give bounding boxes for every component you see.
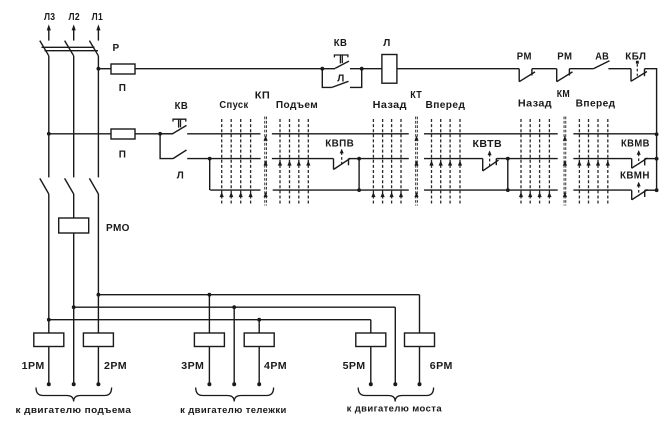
svg-text:Назад: Назад [518, 99, 552, 110]
svg-text:КВ: КВ [175, 101, 189, 112]
svg-text:к двигателю подъема: к двигателю подъема [16, 405, 132, 416]
svg-text:Вперед: Вперед [576, 99, 616, 110]
svg-text:КТ: КТ [410, 90, 422, 101]
svg-text:к двигателю тележки: к двигателю тележки [180, 405, 287, 416]
svg-text:Л3: Л3 [44, 12, 56, 23]
svg-text:КМ: КМ [557, 89, 570, 100]
svg-text:КВМВ: КВМВ [621, 139, 650, 150]
svg-text:КБЛ: КБЛ [625, 52, 646, 63]
svg-text:6РМ: 6РМ [430, 361, 453, 372]
svg-text:П: П [119, 83, 127, 94]
svg-text:КВТВ: КВТВ [473, 139, 503, 150]
svg-text:2РМ: 2РМ [104, 361, 127, 372]
svg-text:1РМ: 1РМ [22, 361, 45, 372]
svg-text:КВ: КВ [334, 38, 348, 49]
svg-text:Л: Л [383, 38, 390, 49]
svg-text:Л1: Л1 [92, 12, 104, 23]
svg-text:КП: КП [255, 90, 271, 101]
svg-text:Подъем: Подъем [276, 100, 318, 111]
svg-text:Л: Л [337, 74, 344, 85]
svg-text:Спуск: Спуск [219, 100, 249, 111]
svg-text:КВМН: КВМН [620, 171, 650, 182]
svg-text:КВПВ: КВПВ [325, 138, 354, 149]
svg-text:Вперед: Вперед [426, 100, 466, 111]
svg-text:4РМ: 4РМ [264, 361, 287, 372]
svg-text:П: П [119, 150, 127, 161]
svg-text:к двигателю моста: к двигателю моста [347, 404, 443, 415]
svg-text:Л: Л [177, 171, 184, 182]
svg-text:5РМ: 5РМ [343, 361, 366, 372]
svg-text:Назад: Назад [373, 100, 407, 111]
svg-text:АВ: АВ [595, 52, 609, 63]
svg-text:Р: Р [112, 43, 119, 54]
svg-text:3РМ: 3РМ [181, 361, 204, 372]
svg-text:РМ: РМ [557, 52, 572, 63]
svg-text:Л2: Л2 [69, 12, 81, 23]
svg-text:РМО: РМО [106, 223, 130, 234]
svg-text:РМ: РМ [517, 52, 532, 63]
